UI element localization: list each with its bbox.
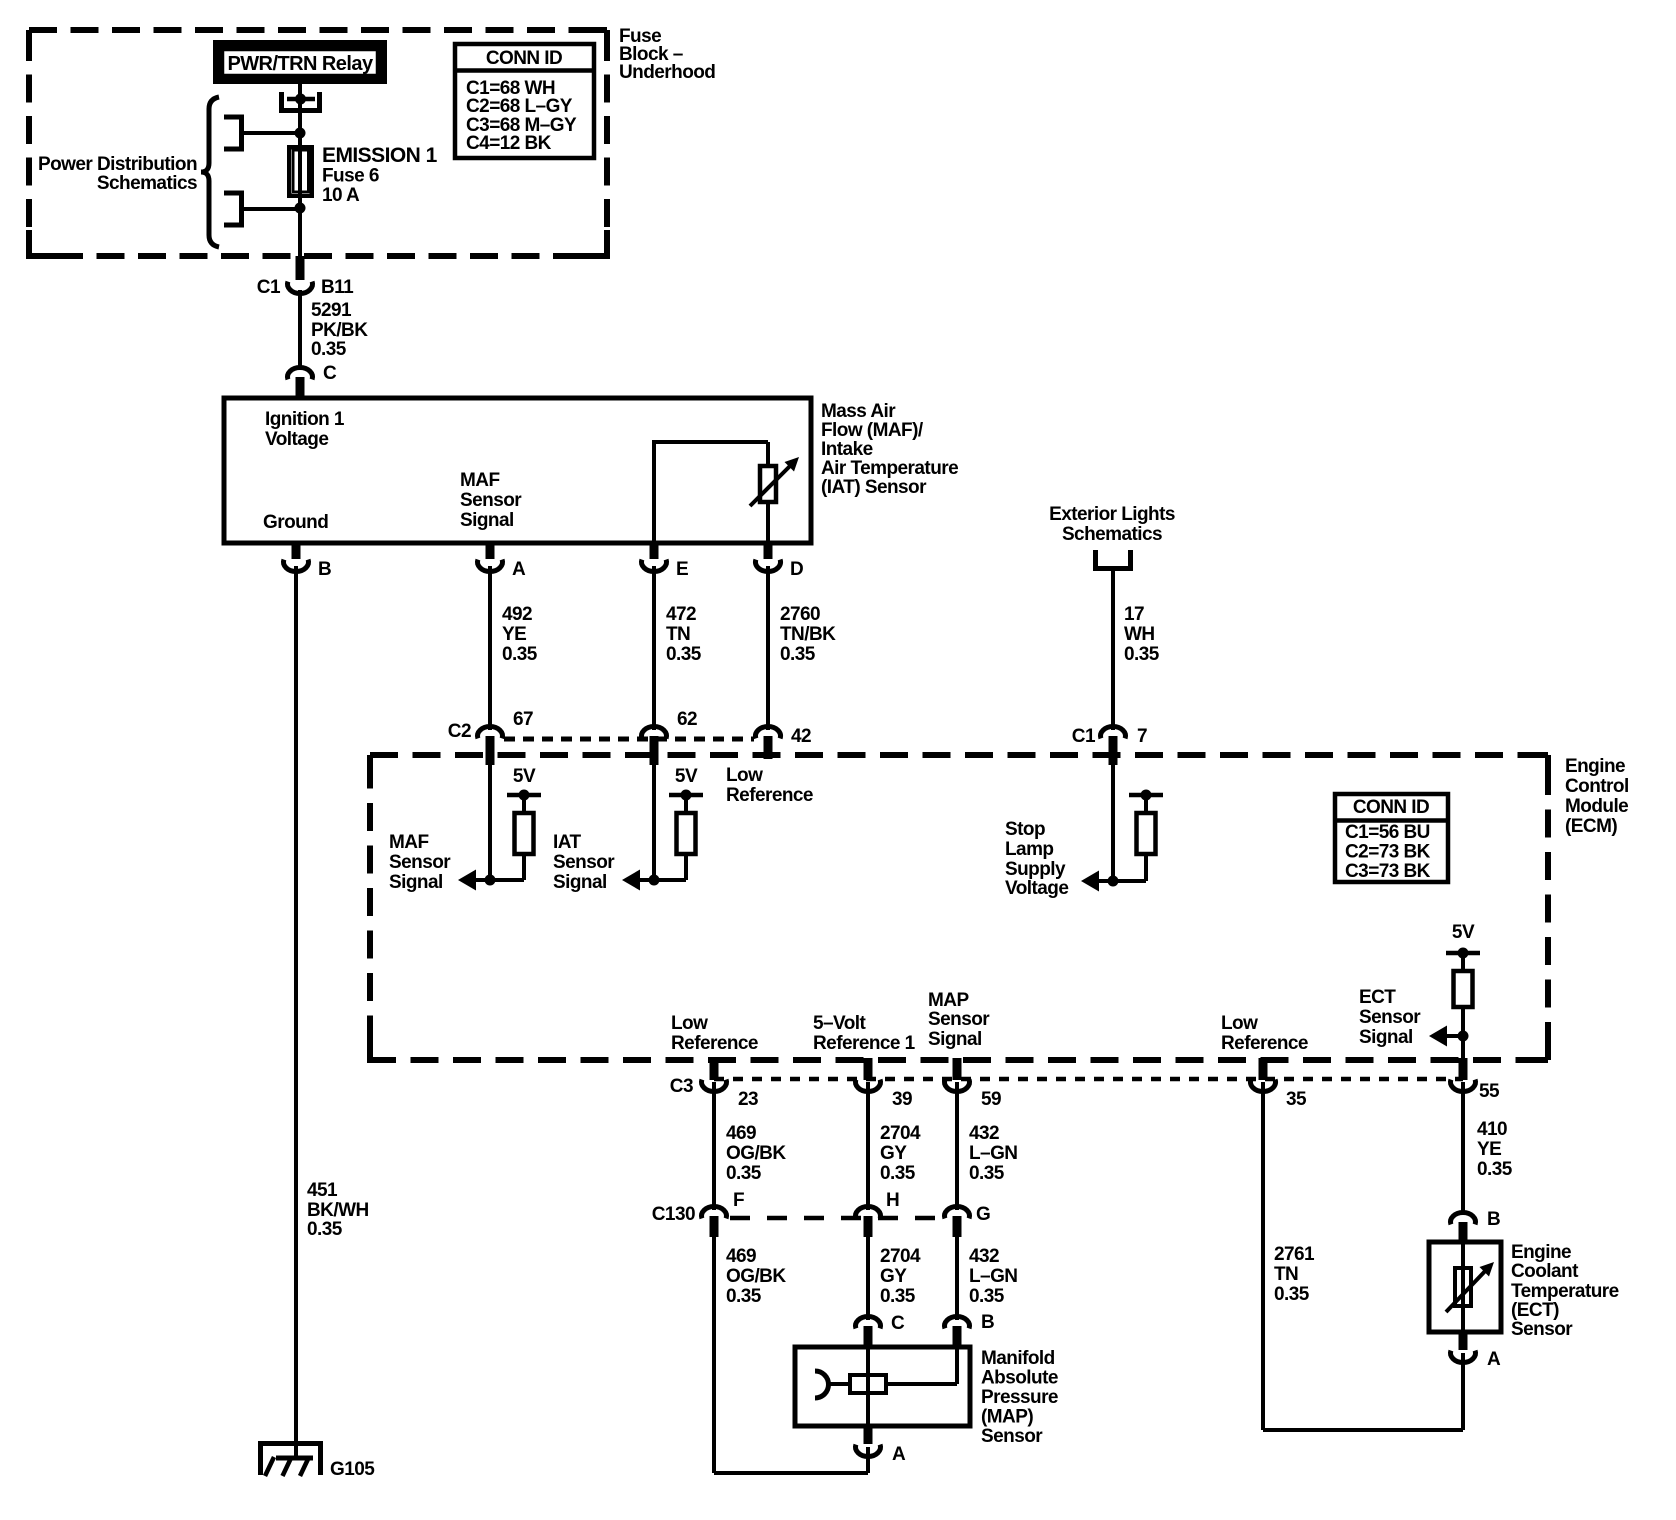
- brace Power Distribution Schematics: [201, 97, 219, 247]
- svg-text:10 A: 10 A: [322, 185, 360, 206]
- svg-text:39: 39: [892, 1089, 912, 1110]
- svg-text:0.35: 0.35: [666, 644, 702, 665]
- wire 5291 upper segment: [298, 210, 302, 280]
- IAT signal wire inside ECM: [652, 742, 656, 880]
- wire 2761 TN 0.35: [1263, 1082, 1463, 1430]
- wire 410 YE 0.35: [1461, 1082, 1465, 1214]
- label wire 2704 GY 0.35 (lower): [880, 1246, 921, 1307]
- wire 5291 PK/BK 0.35: [298, 290, 302, 368]
- connector C130 pin G: [945, 1204, 991, 1237]
- svg-text:B11: B11: [321, 277, 354, 298]
- svg-text:ECT: ECT: [1359, 987, 1396, 1008]
- svg-text:PK/BK: PK/BK: [311, 320, 368, 341]
- svg-text:0.35: 0.35: [880, 1286, 916, 1307]
- connector C2 pin 67: [448, 709, 533, 765]
- svg-text:469: 469: [726, 1246, 756, 1267]
- label Mass Air Flow (MAF)/ Intake Air Temperature (IAT) Sensor: [821, 401, 958, 498]
- svg-text:432: 432: [969, 1123, 999, 1144]
- label Engine Coolant Temperature (ECT) Sensor: [1511, 1242, 1619, 1340]
- connector C3 pin 35: [1251, 1058, 1308, 1110]
- svg-text:B: B: [1487, 1209, 1500, 1230]
- svg-text:Reference 1: Reference 1: [813, 1033, 916, 1054]
- svg-text:Low: Low: [671, 1013, 708, 1034]
- wire resistor to MAF node: [473, 854, 524, 880]
- svg-text:17: 17: [1124, 604, 1144, 625]
- svg-text:Signal: Signal: [1359, 1027, 1413, 1048]
- svg-text:GY: GY: [880, 1143, 907, 1164]
- svg-text:B: B: [318, 559, 331, 580]
- svg-text:2760: 2760: [780, 604, 820, 625]
- svg-text:TN: TN: [666, 624, 690, 645]
- relay contact terminal: [279, 92, 322, 113]
- svg-text:C3=73 BK: C3=73 BK: [1345, 861, 1431, 882]
- svg-text:0.35: 0.35: [726, 1286, 762, 1307]
- MAP sensor box: [795, 1347, 970, 1426]
- svg-text:Power Distribution: Power Distribution: [38, 154, 197, 175]
- label wire 2761 TN 0.35: [1274, 1244, 1315, 1305]
- MAF pin A: [478, 543, 527, 580]
- svg-text:Sensor: Sensor: [928, 1009, 990, 1030]
- wire 469 OG/BK (upper): [712, 1082, 716, 1210]
- svg-text:G105: G105: [330, 1459, 375, 1480]
- svg-text:C3: C3: [670, 1076, 693, 1097]
- label Low Reference (pin 42): [726, 765, 813, 806]
- label Power Distribution Schematics: [38, 154, 197, 194]
- svg-text:2761: 2761: [1274, 1244, 1315, 1265]
- label Exterior Lights Schematics: [1049, 504, 1175, 545]
- arrow Stop Lamp Supply Voltage: [1081, 871, 1099, 892]
- svg-text:MAP: MAP: [928, 990, 969, 1011]
- svg-text:Control: Control: [1565, 776, 1629, 797]
- svg-text:C1: C1: [1072, 726, 1096, 747]
- svg-text:L–GN: L–GN: [969, 1143, 1017, 1164]
- svg-text:OG/BK: OG/BK: [726, 1266, 786, 1287]
- wire 2704 GY (lower): [866, 1237, 870, 1320]
- wire resistor to stop node: [1096, 854, 1146, 881]
- svg-text:Mass Air: Mass Air: [821, 401, 896, 422]
- connector C3 pin 55: [1451, 1058, 1501, 1102]
- label 5-Volt Reference 1: [813, 1013, 916, 1054]
- svg-text:Signal: Signal: [928, 1029, 982, 1050]
- svg-text:67: 67: [513, 709, 533, 730]
- svg-text:492: 492: [502, 604, 532, 625]
- MAP sensing element: [850, 1347, 957, 1426]
- label MAP Sensor Signal: [928, 990, 990, 1050]
- svg-text:C: C: [891, 1313, 905, 1334]
- label wire 410 YE 0.35: [1477, 1119, 1513, 1180]
- svg-text:59: 59: [981, 1089, 1001, 1110]
- svg-text:Lamp: Lamp: [1005, 839, 1053, 860]
- svg-text:Sensor: Sensor: [1511, 1319, 1573, 1340]
- svg-text:5V: 5V: [1452, 922, 1475, 943]
- svg-text:0.35: 0.35: [726, 1163, 762, 1184]
- label Manifold Absolute Pressure (MAP) Sensor: [981, 1348, 1058, 1447]
- label Fuse Block - Underhood: [619, 26, 715, 83]
- wire resistor to IAT node: [637, 854, 686, 880]
- MAF pin E: [642, 543, 689, 580]
- label wire 17 WH 0.35: [1124, 604, 1160, 665]
- label Low Reference (pin 35): [1221, 1013, 1308, 1054]
- svg-text:0.35: 0.35: [307, 1219, 343, 1240]
- wire 2704 GY (upper): [866, 1082, 870, 1210]
- svg-text:CONN ID: CONN ID: [1353, 797, 1429, 818]
- svg-text:TN: TN: [1274, 1264, 1298, 1285]
- wire 432 L-GN (upper): [955, 1082, 959, 1210]
- svg-text:C: C: [323, 363, 337, 384]
- svg-text:Sensor: Sensor: [981, 1426, 1043, 1447]
- svg-text:5V: 5V: [675, 766, 698, 787]
- node junction fuse bottom: [243, 203, 306, 214]
- svg-text:7: 7: [1137, 726, 1147, 747]
- svg-text:472: 472: [666, 604, 696, 625]
- fuse block - underhood dashed box: [29, 30, 607, 256]
- ground G105: [258, 1441, 375, 1480]
- arrow IAT Sensor Signal: [622, 870, 640, 891]
- svg-text:PWR/TRN Relay: PWR/TRN Relay: [227, 53, 374, 75]
- label wire 5291 PK/BK 0.35: [311, 300, 368, 360]
- svg-text:Reference: Reference: [1221, 1033, 1308, 1054]
- label Low Reference (pin 23): [671, 1013, 758, 1054]
- ECT pin B: [1451, 1209, 1501, 1242]
- svg-text:410: 410: [1477, 1119, 1507, 1140]
- svg-text:C2: C2: [448, 721, 471, 742]
- svg-text:0.35: 0.35: [1274, 1284, 1310, 1305]
- svg-text:Low: Low: [1221, 1013, 1258, 1034]
- label Engine Control Module (ECM): [1565, 756, 1629, 837]
- ECT sensor box: [1429, 1242, 1501, 1332]
- pull-up bar stop lamp: [1129, 790, 1163, 816]
- svg-text:Module: Module: [1565, 796, 1628, 817]
- svg-text:0.35: 0.35: [780, 644, 816, 665]
- ECM dashed border: [370, 755, 1548, 1060]
- svg-text:Low: Low: [726, 765, 763, 786]
- svg-text:G: G: [976, 1204, 990, 1225]
- wire 492 YE 0.35: [488, 566, 492, 730]
- label Stop Lamp Supply Voltage: [1005, 819, 1068, 899]
- svg-text:OG/BK: OG/BK: [726, 1143, 786, 1164]
- label EMISSION 1 Fuse 6 10 A: [322, 144, 438, 206]
- svg-text:469: 469: [726, 1123, 756, 1144]
- label wire 2760 TN/BK 0.35: [780, 604, 836, 665]
- connector C pin (MAF harness): [288, 363, 338, 398]
- svg-text:Intake: Intake: [821, 439, 873, 460]
- conn id table fuse block: [455, 44, 594, 158]
- svg-text:35: 35: [1286, 1089, 1307, 1110]
- svg-text:42: 42: [791, 726, 811, 747]
- svg-text:Stop: Stop: [1005, 819, 1045, 840]
- svg-text:Sensor: Sensor: [553, 852, 615, 873]
- svg-text:Signal: Signal: [553, 872, 607, 893]
- svg-text:C2=73 BK: C2=73 BK: [1345, 842, 1431, 863]
- label IAT Sensor Signal: [553, 832, 615, 893]
- svg-text:Absolute: Absolute: [981, 1368, 1058, 1389]
- svg-text:Engine: Engine: [1511, 1242, 1571, 1263]
- relay K1 PWR/TRN Relay box: [213, 40, 387, 84]
- svg-text:TN/BK: TN/BK: [780, 624, 836, 645]
- label wire 469 OG/BK 0.35 (upper): [726, 1123, 786, 1184]
- svg-text:0.35: 0.35: [502, 644, 538, 665]
- wire IAT internal loop: [652, 440, 768, 543]
- label MAF Sensor Signal (in box): [460, 470, 522, 531]
- 5V reference IAT: [669, 766, 703, 815]
- wire 2760 TN/BK 0.35: [766, 566, 770, 730]
- connector C130 pin F: [652, 1190, 744, 1237]
- wire relay output: [298, 84, 302, 135]
- label wire 469 OG/BK 0.35 (lower): [726, 1246, 786, 1307]
- wire 17 WH 0.35: [1111, 571, 1115, 730]
- svg-text:Air Temperature: Air Temperature: [821, 458, 958, 479]
- MAP pressure port: [815, 1371, 851, 1398]
- svg-text:0.35: 0.35: [311, 339, 347, 360]
- connector C3 pin 39: [855, 1058, 912, 1110]
- svg-text:Engine: Engine: [1565, 756, 1625, 777]
- 5V reference ECT: [1446, 922, 1480, 973]
- label wire 2704 GY 0.35 (upper): [880, 1123, 921, 1184]
- MAP pin A: [856, 1426, 907, 1473]
- svg-text:Voltage: Voltage: [1005, 878, 1068, 899]
- svg-text:CONN ID: CONN ID: [486, 48, 562, 69]
- svg-text:A: A: [892, 1444, 906, 1465]
- connector C1 pin B11: [257, 256, 354, 298]
- svg-text:2704: 2704: [880, 1246, 921, 1267]
- fuse F6 EMISSION 1 10A: [289, 133, 312, 210]
- svg-text:Signal: Signal: [389, 872, 443, 893]
- svg-text:C4=12 BK: C4=12 BK: [466, 133, 552, 154]
- svg-text:Reference: Reference: [671, 1033, 758, 1054]
- C2 connector body dotted line: [504, 737, 754, 742]
- label wire 432 L-GN 0.35 (lower): [969, 1246, 1017, 1307]
- svg-text:62: 62: [677, 709, 697, 730]
- resistor MAF pull-up: [515, 813, 534, 854]
- MAF/IAT sensor box: [224, 398, 811, 543]
- svg-text:A: A: [1487, 1349, 1501, 1370]
- svg-text:YE: YE: [1477, 1139, 1501, 1160]
- C3 connector body dotted line: [714, 1077, 1463, 1082]
- svg-text:D: D: [790, 559, 803, 580]
- ECT thermistor: [1446, 1242, 1494, 1332]
- node junction fuse top: [243, 128, 306, 139]
- svg-text:C1=56 BU: C1=56 BU: [1345, 822, 1430, 843]
- svg-text:5291: 5291: [311, 300, 352, 321]
- MAP pin B: [945, 1312, 995, 1347]
- svg-text:Sensor: Sensor: [389, 852, 451, 873]
- label wire 432 L-GN 0.35 (upper): [969, 1123, 1017, 1184]
- resistor stop lamp pull-up: [1137, 813, 1156, 854]
- C130 connector body dashed line: [730, 1216, 945, 1221]
- svg-text:MAF: MAF: [389, 832, 429, 853]
- label MAF Sensor Signal: [389, 832, 451, 893]
- off-page connector exterior lights: [1093, 550, 1133, 571]
- svg-text:Voltage: Voltage: [265, 429, 328, 450]
- svg-text:0.35: 0.35: [880, 1163, 916, 1184]
- svg-text:Sensor: Sensor: [460, 490, 522, 511]
- svg-text:Schematics: Schematics: [97, 173, 197, 194]
- svg-text:0.35: 0.35: [1124, 644, 1160, 665]
- svg-text:Exterior Lights: Exterior Lights: [1049, 504, 1175, 525]
- label ECT Sensor Signal: [1359, 987, 1421, 1048]
- svg-text:B: B: [981, 1312, 994, 1333]
- connector C1 pin 7: [1072, 726, 1147, 765]
- svg-text:MAF: MAF: [460, 470, 500, 491]
- svg-text:55: 55: [1479, 1081, 1500, 1102]
- svg-text:C130: C130: [652, 1204, 695, 1225]
- MAP pin C: [856, 1313, 906, 1347]
- arrow MAF Sensor Signal: [458, 870, 476, 891]
- IAT thermistor RT1: [750, 457, 799, 543]
- svg-text:5–Volt: 5–Volt: [813, 1013, 867, 1034]
- ECT pin A: [1451, 1332, 1502, 1430]
- svg-text:BK/WH: BK/WH: [307, 1200, 369, 1221]
- svg-text:5V: 5V: [513, 766, 536, 787]
- svg-text:GY: GY: [880, 1266, 907, 1287]
- svg-text:Flow (MAF)/: Flow (MAF)/: [821, 420, 924, 441]
- label wire 492 YE 0.35: [502, 604, 538, 665]
- svg-text:Pressure: Pressure: [981, 1387, 1058, 1408]
- svg-text:YE: YE: [502, 624, 526, 645]
- connector C130 pin H: [856, 1190, 900, 1237]
- connector C2 pin 42: [756, 726, 812, 759]
- resistor IAT pull-up: [677, 813, 696, 854]
- MAF signal wire inside ECM: [488, 742, 492, 880]
- svg-text:IAT: IAT: [553, 832, 581, 853]
- svg-text:Underhood: Underhood: [619, 62, 715, 83]
- svg-text:EMISSION 1: EMISSION 1: [322, 144, 438, 167]
- wire 472 TN 0.35: [652, 566, 656, 730]
- svg-text:Ignition 1: Ignition 1: [265, 409, 345, 430]
- 5V reference MAF: [507, 766, 541, 815]
- wire 451 BK/WH (ground run): [294, 566, 298, 1459]
- MAF pin D: [756, 543, 804, 580]
- node MAF signal junction: [485, 875, 496, 886]
- arrow ECT Sensor Signal: [1429, 1026, 1447, 1047]
- svg-text:(IAT) Sensor: (IAT) Sensor: [821, 477, 927, 498]
- node IAT signal junction: [649, 875, 660, 886]
- svg-text:H: H: [886, 1190, 899, 1211]
- node stop lamp junction: [1108, 876, 1119, 887]
- svg-text:(ECM): (ECM): [1565, 816, 1617, 837]
- MAF pin B: [284, 543, 332, 580]
- svg-text:2704: 2704: [880, 1123, 921, 1144]
- svg-text:Fuse 6: Fuse 6: [322, 166, 379, 187]
- svg-text:(MAP): (MAP): [981, 1407, 1033, 1428]
- svg-text:(ECT): (ECT): [1511, 1300, 1559, 1321]
- wire 432 L-GN (lower): [955, 1237, 959, 1320]
- connector C3 pin 59: [944, 1058, 1001, 1110]
- wire 469 OG/BK (lower): [714, 1237, 868, 1473]
- svg-text:0.35: 0.35: [1477, 1159, 1513, 1180]
- connector stub to other circuits (upper): [224, 115, 244, 152]
- svg-text:Temperature: Temperature: [1511, 1281, 1619, 1302]
- connector C2 pin 62: [642, 709, 698, 765]
- svg-text:Reference: Reference: [726, 785, 813, 806]
- svg-text:432: 432: [969, 1246, 999, 1267]
- label wire 472 TN 0.35: [666, 604, 702, 665]
- svg-text:Manifold: Manifold: [981, 1348, 1055, 1369]
- svg-text:L–GN: L–GN: [969, 1266, 1017, 1287]
- connector stub to other circuits (lower): [224, 191, 244, 228]
- svg-text:0.35: 0.35: [969, 1286, 1005, 1307]
- label Ground: [263, 512, 328, 533]
- svg-text:Supply: Supply: [1005, 859, 1066, 880]
- svg-text:Signal: Signal: [460, 510, 514, 531]
- svg-text:WH: WH: [1124, 624, 1155, 645]
- svg-text:0.35: 0.35: [969, 1163, 1005, 1184]
- svg-text:Ground: Ground: [263, 512, 328, 533]
- resistor ECT pull-up: [1454, 971, 1473, 1007]
- svg-text:C1: C1: [257, 277, 281, 298]
- label Ignition 1 Voltage: [265, 409, 345, 450]
- svg-text:F: F: [733, 1190, 744, 1211]
- svg-text:Sensor: Sensor: [1359, 1007, 1421, 1028]
- svg-text:Schematics: Schematics: [1062, 524, 1162, 545]
- svg-text:23: 23: [738, 1089, 758, 1110]
- svg-text:Coolant: Coolant: [1511, 1261, 1579, 1282]
- svg-text:451: 451: [307, 1180, 338, 1201]
- svg-text:A: A: [512, 559, 526, 580]
- connector C3 pin 23: [670, 1058, 758, 1110]
- stop lamp wire inside ECM: [1111, 742, 1115, 881]
- svg-text:C2=68 L–GY: C2=68 L–GY: [466, 96, 573, 117]
- wire ECT resistor to node: [1461, 1007, 1465, 1060]
- label wire 451 BK/WH 0.35: [307, 1180, 369, 1240]
- conn id table ECM: [1335, 794, 1448, 882]
- svg-text:E: E: [676, 559, 688, 580]
- node ECT signal junction: [1445, 1031, 1469, 1042]
